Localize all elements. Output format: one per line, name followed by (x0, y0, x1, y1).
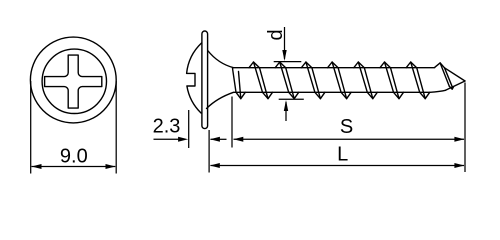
thread turn 7 top point (406, 62, 417, 68)
cone tip top edge (445, 68, 466, 81)
shank top silhouette line (234, 67, 435, 69)
cone tip bottom edge (446, 81, 466, 90)
phillips cross recess outline (45, 55, 102, 108)
thread turn 5 bottom point (367, 92, 377, 98)
S arrow right (454, 137, 464, 142)
thread turn 5 top point (354, 62, 365, 68)
svg-text:d: d (265, 29, 287, 40)
bugle fillet top curve (208, 51, 234, 68)
9.0 dim arrow left (32, 164, 42, 169)
side view: flange disc edge (202, 31, 208, 129)
L dimension line (211, 165, 465, 167)
thread turn 6 bottom point (394, 92, 404, 98)
L arrow left (210, 163, 220, 168)
d tick top (274, 61, 302, 63)
9.0 extension line right (115, 81, 117, 174)
thread turn 4 crest left edge (332, 62, 341, 92)
thread start crest edge A (233, 68, 237, 92)
thread turn 2 crest right edge (286, 68, 295, 99)
L arrow right (454, 163, 464, 168)
9.0 dim arrow right (106, 164, 116, 169)
thread start crest bottom point (236, 92, 245, 98)
bugle fillet bottom curve (207, 92, 234, 108)
svg-text:2.3: 2.3 (153, 115, 181, 137)
S extension line left (231, 97, 233, 148)
thread end crest left edge (440, 63, 449, 86)
2.3 left outside arrow line (154, 138, 179, 140)
thread turn 5 crest right edge (364, 68, 373, 99)
thread turn 3 bottom point (315, 92, 325, 98)
thread turn 4 crest right edge (338, 68, 347, 99)
thread turn 1 top point (249, 62, 260, 68)
d leader arrow bottom line (285, 102, 287, 121)
side view: dome profile with recess notch (187, 43, 202, 113)
2.3 extension line (188, 110, 190, 148)
thread turn 1 crest left edge (254, 62, 263, 92)
2.3 left arrow (points right) (178, 137, 188, 142)
S arrow left (233, 137, 243, 142)
shank bottom silhouette line (234, 90, 446, 92)
thread turn 6 top point (380, 62, 391, 68)
thread turn 7 crest left edge (411, 62, 420, 92)
thread turn 2 bottom point (289, 92, 299, 98)
thread turn 1 bottom point (263, 92, 273, 98)
9.0 dimension line (32, 166, 116, 168)
svg-text:L: L (337, 144, 348, 166)
svg-text:S: S (340, 116, 353, 138)
thread turn 2 crest left edge (280, 62, 289, 92)
thread turn 3 crest left edge (306, 62, 315, 92)
thread turn 1 crest right edge (260, 68, 269, 99)
thread turn 3 crest right edge (312, 68, 321, 99)
thread start crest edge B (239, 72, 241, 99)
tip extension line (464, 83, 466, 173)
9.0 extension line left (30, 81, 32, 174)
d arrow up (bottom) (284, 100, 288, 111)
thread end crest top point (435, 63, 445, 68)
svg-text:9.0: 9.0 (60, 146, 88, 168)
thread turn 2 top point (275, 62, 286, 68)
head front view: outer circle (flange dia 9.0) (30, 37, 116, 123)
thread end crest bottom point (449, 86, 453, 89)
head front view: inner circle (dome) (42, 49, 106, 113)
d leader arrow top line (284, 27, 286, 59)
d tick bottom (279, 98, 304, 100)
2.3 right arrow (points left) (210, 137, 220, 142)
2.3 right outside arrow line (211, 138, 227, 140)
thread end crest right edge (445, 68, 453, 88)
thread turn 5 crest left edge (358, 62, 367, 92)
thread turn 3 top point (301, 62, 312, 68)
thread turn 6 crest left edge (385, 62, 394, 92)
thread turn 7 bottom point (420, 92, 430, 98)
S dimension line (234, 138, 465, 140)
d arrow down (top) (282, 50, 286, 61)
thread turn 4 top point (328, 62, 339, 68)
thread turn 7 crest right edge (417, 68, 426, 99)
thread turn 4 bottom point (341, 92, 351, 98)
thread turn 6 crest right edge (391, 68, 400, 99)
L extension line left (208, 130, 210, 173)
